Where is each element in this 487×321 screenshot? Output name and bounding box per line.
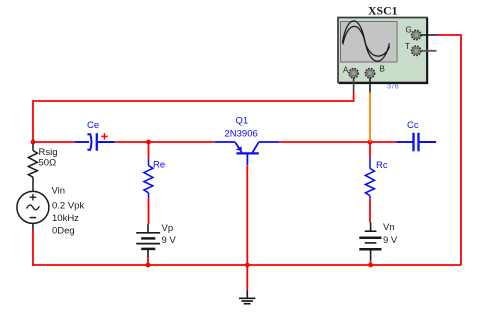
resistor Re — [144, 158, 153, 198]
pin label A — [343, 66, 349, 75]
wire Q1 collector to Cc — [279, 141, 396, 143]
svg-text:A: A — [343, 66, 349, 75]
wire junction to Re — [148, 142, 150, 158]
wire scope B to junction (orange) — [369, 92, 371, 142]
label Rsig — [39, 147, 58, 158]
stub wire of B — [369, 78, 371, 93]
pin label B — [380, 65, 385, 74]
node junction Rc top / scope B — [368, 140, 373, 145]
value label 9 V of Vp — [162, 235, 177, 246]
wire Ce to Q1 emitter — [115, 141, 215, 143]
wire bottom rail — [32, 264, 461, 266]
transistor Q1 2N3906 (PNP) — [215, 142, 280, 165]
label Re — [153, 160, 165, 171]
pin label G — [406, 26, 412, 35]
svg-text:9 V: 9 V — [162, 235, 177, 246]
wire junction to Ce left lead — [33, 141, 75, 143]
value label 0Deg — [52, 226, 75, 237]
ground — [239, 290, 255, 304]
svg-text:G: G — [406, 26, 412, 35]
svg-text:10kHz: 10kHz — [52, 213, 79, 224]
stub wire of T — [421, 50, 437, 52]
node junction bottom Rc branch — [368, 263, 373, 268]
svg-text:Vp: Vp — [162, 223, 174, 234]
capacitor Ce (polarized) — [75, 133, 115, 150]
value label 2N3906 — [225, 129, 258, 140]
resistor Rc — [365, 158, 374, 199]
terminal A of scope — [349, 69, 358, 78]
svg-text:T: T — [405, 42, 410, 51]
wire Vp to bottom rail — [147, 258, 149, 265]
value label 50 ohm — [39, 158, 57, 169]
wire top-left vertical (node A rail) — [32, 100, 34, 142]
stub wire of A — [353, 78, 355, 93]
svg-text:Vn: Vn — [383, 222, 395, 233]
label Rc — [376, 160, 388, 171]
scope trace 2 — [343, 26, 390, 56]
wire scope G to right rail down to bottom — [438, 35, 461, 265]
label Q1 — [236, 116, 249, 127]
terminal T of scope — [412, 46, 421, 55]
label Cc — [407, 120, 419, 131]
svg-text:50Ω: 50Ω — [39, 158, 57, 169]
svg-text:2N3906: 2N3906 — [225, 129, 258, 140]
capacitor Cc — [397, 133, 437, 152]
wire top rail to scope channel A — [33, 92, 354, 101]
stub wire of G — [421, 34, 438, 36]
oscilloscope screen — [341, 22, 398, 63]
resistor Rsig — [28, 144, 37, 192]
node junction Rsig/Ce — [31, 140, 36, 145]
node junction Re top — [146, 140, 151, 145]
battery V1 Vp — [136, 224, 160, 258]
label Vn — [383, 222, 395, 233]
terminal G of scope — [412, 30, 421, 39]
svg-text:Rsig: Rsig — [39, 147, 58, 158]
value label 10kHz — [52, 213, 79, 224]
value label 9 V of Vn — [383, 235, 398, 246]
svg-text:Re: Re — [153, 160, 165, 171]
oscilloscope XSC1 body — [338, 18, 428, 85]
svg-text:XSC1: XSC1 — [368, 3, 398, 17]
polarity plus mark of Ce — [101, 133, 107, 139]
svg-text:Rc: Rc — [376, 160, 388, 171]
value label 0.2 Vpk — [52, 201, 84, 212]
battery V2 Vn — [359, 222, 381, 260]
svg-text:376: 376 — [387, 84, 399, 91]
net number label 376 (blue) — [387, 84, 399, 91]
scope trace 1 — [342, 21, 389, 61]
wire junction to Rc — [369, 142, 371, 158]
wire Vin to bottom rail — [32, 230, 34, 266]
svg-text:9 V: 9 V — [383, 235, 398, 246]
svg-text:Vin: Vin — [52, 186, 66, 197]
svg-text:Ce: Ce — [87, 120, 99, 131]
svg-text:B: B — [380, 65, 385, 74]
pin label T — [405, 42, 410, 51]
label Ce — [87, 120, 99, 131]
svg-text:0.2 Vpk: 0.2 Vpk — [52, 201, 84, 212]
label Vp — [162, 223, 174, 234]
node junction bottom Re branch — [146, 263, 151, 268]
label XSC1 — [368, 3, 398, 17]
svg-text:Q1: Q1 — [236, 116, 249, 127]
terminal B of scope — [365, 69, 374, 78]
wire Rc to Vn — [369, 199, 371, 223]
svg-text:0Deg: 0Deg — [52, 226, 75, 237]
wire Q1 base to bottom rail — [246, 165, 248, 290]
arrow of Q1 emitter (PNP) — [236, 146, 242, 150]
source Vin (AC) — [17, 191, 49, 230]
node junction base/ground — [245, 263, 250, 268]
wire Vn to bottom rail — [370, 260, 372, 265]
wire Re to Vp — [148, 198, 150, 224]
label Vin — [52, 186, 66, 197]
svg-text:Cc: Cc — [407, 120, 419, 131]
